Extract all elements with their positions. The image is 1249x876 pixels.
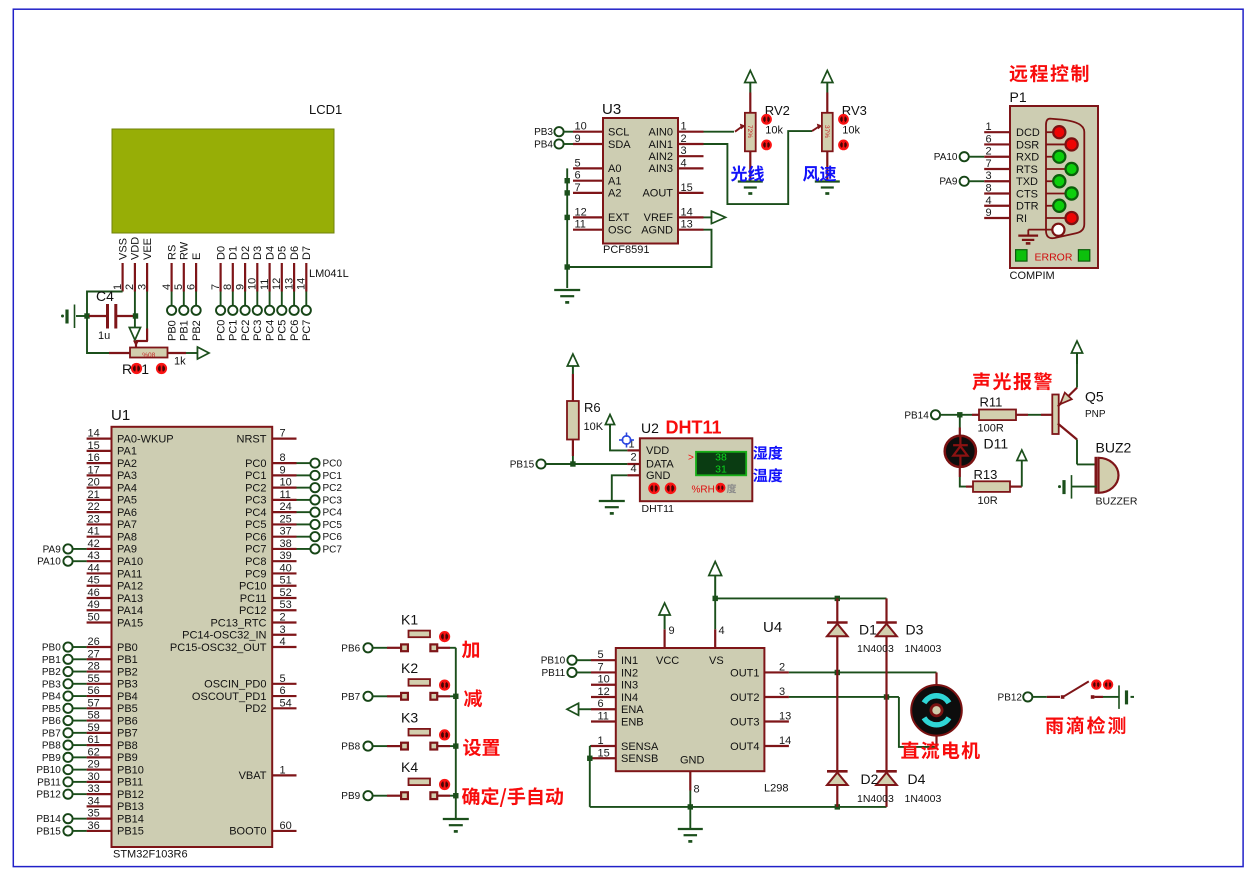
svg-text:PB11: PB11 <box>117 777 143 789</box>
svg-text:12: 12 <box>575 206 587 218</box>
svg-text:PC0: PC0 <box>245 458 266 470</box>
svg-text:72%: 72% <box>746 125 753 138</box>
svg-text:BUZ2: BUZ2 <box>1096 440 1132 456</box>
svg-text:PA10: PA10 <box>934 152 958 163</box>
svg-text:PB1: PB1 <box>42 655 61 666</box>
svg-text:PC5: PC5 <box>323 520 343 531</box>
svg-text:D7: D7 <box>301 246 313 260</box>
svg-text:LCD1: LCD1 <box>309 102 342 117</box>
svg-text:U4: U4 <box>763 619 782 636</box>
svg-text:D0: D0 <box>215 246 227 260</box>
svg-text:K4: K4 <box>401 759 418 775</box>
svg-text:%RH: %RH <box>692 484 715 495</box>
svg-text:PB3: PB3 <box>42 679 61 690</box>
svg-text:PB14: PB14 <box>117 813 144 825</box>
svg-text:DTR: DTR <box>1016 201 1039 213</box>
svg-text:24: 24 <box>280 501 292 513</box>
svg-text:PA2: PA2 <box>117 458 137 470</box>
svg-text:1: 1 <box>280 764 286 776</box>
svg-text:1N4003: 1N4003 <box>857 643 894 655</box>
svg-text:61: 61 <box>88 734 100 746</box>
svg-text:VS: VS <box>709 655 724 667</box>
svg-text:PB2: PB2 <box>191 320 203 341</box>
svg-text:100R: 100R <box>978 423 1004 435</box>
svg-text:PB12: PB12 <box>117 789 144 801</box>
svg-text:2: 2 <box>681 133 687 145</box>
svg-text:PA3: PA3 <box>117 470 137 482</box>
svg-text:D1: D1 <box>859 622 877 638</box>
svg-text:8: 8 <box>222 284 234 290</box>
svg-text:PC4: PC4 <box>323 508 343 519</box>
svg-text:PB9: PB9 <box>42 753 61 764</box>
svg-text:PB8: PB8 <box>42 741 61 752</box>
svg-text:ENB: ENB <box>621 716 644 728</box>
svg-text:PB9: PB9 <box>117 752 138 764</box>
svg-text:PC1: PC1 <box>323 471 343 482</box>
svg-text:IN1: IN1 <box>621 655 638 667</box>
svg-text:PB11: PB11 <box>541 668 565 679</box>
svg-text:PB7: PB7 <box>42 728 61 739</box>
svg-text:10k: 10k <box>842 125 860 137</box>
svg-text:OSCOUT_PD1: OSCOUT_PD1 <box>192 691 267 703</box>
svg-text:PC1: PC1 <box>228 320 240 341</box>
svg-text:DSR: DSR <box>1016 139 1039 151</box>
svg-text:10: 10 <box>598 674 610 686</box>
svg-text:25: 25 <box>280 513 292 525</box>
svg-text:DCD: DCD <box>1016 127 1040 139</box>
svg-text:K2: K2 <box>401 660 418 676</box>
svg-text:37%: 37% <box>823 125 830 138</box>
svg-text:2: 2 <box>124 284 136 290</box>
svg-text:13: 13 <box>779 711 791 723</box>
svg-text:21: 21 <box>88 489 100 501</box>
svg-text:PC12: PC12 <box>239 605 267 617</box>
svg-text:SCL: SCL <box>608 127 629 139</box>
svg-text:59: 59 <box>88 722 100 734</box>
svg-text:PC6: PC6 <box>323 532 343 543</box>
svg-text:46: 46 <box>88 587 100 599</box>
svg-text:COMPIM: COMPIM <box>1010 270 1055 282</box>
svg-text:28: 28 <box>88 661 100 673</box>
svg-text:DATA: DATA <box>646 459 674 471</box>
svg-text:4: 4 <box>631 463 637 475</box>
svg-text:11: 11 <box>259 279 271 290</box>
svg-text:9: 9 <box>280 464 286 476</box>
svg-text:6: 6 <box>280 685 286 697</box>
svg-text:1k: 1k <box>174 356 186 368</box>
svg-text:PB4: PB4 <box>117 691 138 703</box>
svg-text:A1: A1 <box>608 176 621 188</box>
svg-text:PB7: PB7 <box>117 728 138 740</box>
svg-text:2: 2 <box>986 146 992 158</box>
svg-text:RI: RI <box>1016 213 1027 225</box>
svg-text:PC14-OSC32_IN: PC14-OSC32_IN <box>182 630 266 642</box>
svg-text:9: 9 <box>575 133 581 145</box>
svg-text:3: 3 <box>779 686 785 698</box>
svg-text:5: 5 <box>173 284 185 290</box>
svg-text:58: 58 <box>88 710 100 722</box>
svg-text:PC15-OSC32_OUT: PC15-OSC32_OUT <box>170 642 267 654</box>
svg-text:52: 52 <box>280 587 292 599</box>
svg-text:55: 55 <box>88 673 100 685</box>
svg-text:3: 3 <box>280 624 286 636</box>
svg-text:42: 42 <box>88 538 100 550</box>
svg-text:11: 11 <box>280 489 291 501</box>
svg-text:IN3: IN3 <box>621 680 638 692</box>
svg-text:PC10: PC10 <box>239 581 267 593</box>
svg-text:VEE: VEE <box>142 238 154 260</box>
svg-text:PB1: PB1 <box>117 654 138 666</box>
svg-text:15: 15 <box>681 182 693 194</box>
svg-text:1: 1 <box>986 121 992 133</box>
svg-text:D1: D1 <box>228 246 240 260</box>
svg-text:40: 40 <box>280 562 292 574</box>
svg-text:50: 50 <box>88 612 100 624</box>
svg-text:6: 6 <box>986 133 992 145</box>
svg-text:7: 7 <box>280 428 286 440</box>
svg-text:PC3: PC3 <box>323 495 343 506</box>
svg-text:11: 11 <box>598 711 609 723</box>
svg-text:10: 10 <box>247 278 259 290</box>
svg-text:D4: D4 <box>908 771 926 787</box>
svg-text:PA1: PA1 <box>117 446 137 458</box>
svg-text:PA4: PA4 <box>117 482 137 494</box>
svg-text:PC6: PC6 <box>245 531 266 543</box>
svg-text:PC0: PC0 <box>215 320 227 341</box>
svg-text:9: 9 <box>669 625 675 637</box>
svg-text:PB11: PB11 <box>37 777 61 788</box>
svg-text:D2: D2 <box>240 246 252 260</box>
svg-text:PB8: PB8 <box>117 740 138 752</box>
svg-text:35: 35 <box>88 808 100 820</box>
svg-text:VREF: VREF <box>644 212 674 224</box>
svg-text:PA9: PA9 <box>43 544 62 555</box>
svg-text:U3: U3 <box>602 101 621 118</box>
svg-text:6: 6 <box>185 284 197 290</box>
svg-text:PA9: PA9 <box>939 177 958 188</box>
svg-text:57: 57 <box>88 697 100 709</box>
svg-text:10R: 10R <box>978 495 998 507</box>
svg-text:53: 53 <box>280 599 292 611</box>
svg-text:15: 15 <box>88 440 100 452</box>
svg-text:AIN1: AIN1 <box>649 139 673 151</box>
svg-text:PC5: PC5 <box>277 320 289 341</box>
svg-text:AIN3: AIN3 <box>649 163 673 175</box>
svg-text:16: 16 <box>88 452 100 464</box>
svg-text:6: 6 <box>575 170 581 182</box>
svg-text:26: 26 <box>88 636 100 648</box>
svg-text:13: 13 <box>681 219 693 231</box>
svg-text:STM32F103R6: STM32F103R6 <box>113 849 188 861</box>
svg-text:49: 49 <box>88 599 100 611</box>
svg-text:PC0: PC0 <box>323 459 343 470</box>
svg-text:1u: 1u <box>98 330 110 342</box>
svg-text:PB10: PB10 <box>117 764 144 776</box>
svg-text:PA6: PA6 <box>117 507 137 519</box>
svg-text:PC8: PC8 <box>245 556 266 568</box>
svg-text:PA0-WKUP: PA0-WKUP <box>117 433 174 445</box>
svg-text:U2: U2 <box>641 420 659 436</box>
svg-text:41: 41 <box>88 526 100 538</box>
svg-text:SENSB: SENSB <box>621 753 658 765</box>
svg-text:PA8: PA8 <box>117 531 137 543</box>
svg-text:36: 36 <box>88 820 100 832</box>
svg-text:PB15: PB15 <box>510 460 535 471</box>
svg-text:SDA: SDA <box>608 139 631 151</box>
svg-text:1N4003: 1N4003 <box>905 793 942 805</box>
svg-text:AGND: AGND <box>641 225 673 237</box>
svg-text:AIN2: AIN2 <box>649 151 673 163</box>
svg-text:%08: %08 <box>142 352 155 359</box>
svg-text:PA9: PA9 <box>117 544 137 556</box>
svg-text:RXD: RXD <box>1016 152 1039 164</box>
svg-text:PC2: PC2 <box>240 320 252 341</box>
svg-text:RS: RS <box>166 245 178 260</box>
svg-text:OSCIN_PD0: OSCIN_PD0 <box>204 679 266 691</box>
svg-text:D5: D5 <box>277 246 289 260</box>
svg-text:PB0: PB0 <box>42 643 61 654</box>
svg-text:PC4: PC4 <box>264 320 276 341</box>
svg-text:14: 14 <box>779 735 791 747</box>
svg-text:5: 5 <box>280 673 286 685</box>
svg-text:1: 1 <box>598 735 604 747</box>
svg-text:VSS: VSS <box>117 238 129 260</box>
svg-text:ENA: ENA <box>621 704 644 716</box>
svg-text:PC7: PC7 <box>245 544 266 556</box>
svg-text:PB6: PB6 <box>42 716 61 727</box>
svg-text:K3: K3 <box>401 710 418 726</box>
svg-text:20: 20 <box>88 477 100 489</box>
svg-text:7: 7 <box>986 158 992 170</box>
svg-text:D11: D11 <box>984 436 1009 452</box>
svg-text:PC3: PC3 <box>245 495 266 507</box>
svg-text:PNP: PNP <box>1085 409 1106 420</box>
svg-text:30: 30 <box>88 771 100 783</box>
svg-text:56: 56 <box>88 685 100 697</box>
svg-text:A0: A0 <box>608 163 621 175</box>
svg-text:8: 8 <box>694 784 700 796</box>
svg-text:5: 5 <box>575 157 581 169</box>
svg-text:PB0: PB0 <box>117 642 138 654</box>
svg-text:OUT2: OUT2 <box>730 692 759 704</box>
svg-text:PB13: PB13 <box>117 801 144 813</box>
svg-text:5: 5 <box>598 649 604 661</box>
svg-text:4: 4 <box>161 284 173 290</box>
svg-text:PA5: PA5 <box>117 495 137 507</box>
svg-text:DHT11: DHT11 <box>666 418 722 438</box>
svg-text:PC3: PC3 <box>252 320 264 341</box>
svg-text:NRST: NRST <box>237 433 267 445</box>
svg-text:39: 39 <box>280 550 292 562</box>
svg-text:BOOT0: BOOT0 <box>229 826 266 838</box>
svg-text:PB0: PB0 <box>166 320 178 341</box>
svg-text:7: 7 <box>575 182 581 194</box>
svg-text:PA10: PA10 <box>37 557 61 568</box>
svg-text:PA7: PA7 <box>117 519 137 531</box>
svg-text:22: 22 <box>88 501 100 513</box>
svg-text:PC6: PC6 <box>289 320 301 341</box>
svg-text:PB5: PB5 <box>42 704 61 715</box>
svg-text:RW: RW <box>179 241 191 260</box>
svg-text:43: 43 <box>88 550 100 562</box>
svg-text:PC7: PC7 <box>301 320 313 341</box>
svg-text:IN4: IN4 <box>621 692 638 704</box>
svg-text:PA13: PA13 <box>117 593 143 605</box>
svg-text:PA15: PA15 <box>117 617 143 629</box>
svg-text:4: 4 <box>280 636 286 648</box>
svg-text:PD2: PD2 <box>245 703 266 715</box>
svg-text:PB15: PB15 <box>36 826 61 837</box>
svg-text:12: 12 <box>271 278 283 290</box>
svg-text:RTS: RTS <box>1016 164 1038 176</box>
svg-text:14: 14 <box>296 278 308 290</box>
svg-text:GND: GND <box>646 470 671 482</box>
svg-text:PC7: PC7 <box>323 544 343 555</box>
svg-text:PB10: PB10 <box>36 765 61 776</box>
svg-text:R6: R6 <box>584 400 601 415</box>
svg-text:PB6: PB6 <box>117 715 138 727</box>
svg-text:U1: U1 <box>111 407 130 424</box>
svg-text:37: 37 <box>280 526 292 538</box>
svg-text:DHT11: DHT11 <box>642 503 675 515</box>
svg-text:R13: R13 <box>974 467 998 482</box>
svg-text:PB14: PB14 <box>36 814 61 825</box>
svg-text:PB6: PB6 <box>341 643 360 654</box>
svg-text:1N4003: 1N4003 <box>905 643 942 655</box>
svg-text:1N4003: 1N4003 <box>857 793 894 805</box>
svg-text:7: 7 <box>210 284 222 290</box>
svg-text:8: 8 <box>986 183 992 195</box>
svg-text:34: 34 <box>88 795 100 807</box>
svg-text:VBAT: VBAT <box>239 770 267 782</box>
svg-text:D2: D2 <box>861 771 879 787</box>
svg-text:7: 7 <box>598 661 604 673</box>
svg-text:2: 2 <box>631 452 637 464</box>
svg-text:VDD: VDD <box>130 237 142 260</box>
svg-text:GND: GND <box>680 755 705 767</box>
svg-text:11: 11 <box>575 219 586 231</box>
svg-text:17: 17 <box>88 464 100 476</box>
svg-text:PA10: PA10 <box>117 556 143 568</box>
svg-text:ERROR: ERROR <box>1035 252 1073 264</box>
svg-text:6: 6 <box>598 698 604 710</box>
svg-text:Q5: Q5 <box>1085 389 1104 405</box>
svg-text:PB3: PB3 <box>534 127 553 138</box>
svg-text:LM041L: LM041L <box>309 268 349 280</box>
svg-text:VCC: VCC <box>656 655 679 667</box>
svg-text:2: 2 <box>280 612 286 624</box>
svg-text:A2: A2 <box>608 188 621 200</box>
svg-text:BUZZER: BUZZER <box>1096 496 1138 508</box>
svg-text:EXT: EXT <box>608 212 630 224</box>
svg-text:PA12: PA12 <box>117 581 143 593</box>
svg-text:PB8: PB8 <box>341 742 360 753</box>
svg-text:PB7: PB7 <box>341 692 360 703</box>
svg-text:4: 4 <box>719 625 725 637</box>
svg-text:14: 14 <box>88 428 100 440</box>
svg-text:PB2: PB2 <box>42 667 61 678</box>
svg-text:PB2: PB2 <box>117 666 138 678</box>
svg-text:4: 4 <box>681 157 687 169</box>
svg-text:D3: D3 <box>906 622 924 638</box>
svg-text:13: 13 <box>283 278 295 290</box>
svg-text:23: 23 <box>88 513 100 525</box>
svg-text:31: 31 <box>715 463 727 475</box>
svg-text:3: 3 <box>681 145 687 157</box>
svg-text:D6: D6 <box>289 246 301 260</box>
svg-text:3: 3 <box>986 170 992 182</box>
svg-text:10k: 10k <box>765 125 783 137</box>
svg-text:44: 44 <box>88 562 100 574</box>
svg-text:P1: P1 <box>1010 89 1027 105</box>
svg-text:OUT1: OUT1 <box>730 667 759 679</box>
svg-text:33: 33 <box>88 783 100 795</box>
svg-text:PC13_RTC: PC13_RTC <box>210 617 266 629</box>
svg-text:VDD: VDD <box>646 445 669 457</box>
svg-text:1: 1 <box>681 121 687 133</box>
svg-text:PC2: PC2 <box>245 482 266 494</box>
svg-text:PB5: PB5 <box>117 703 138 715</box>
svg-text:2: 2 <box>779 661 785 673</box>
svg-text:9: 9 <box>986 207 992 219</box>
svg-text:>: > <box>688 453 694 464</box>
svg-text:PB4: PB4 <box>42 692 61 703</box>
svg-text:R11: R11 <box>980 395 1003 410</box>
svg-text:PC4: PC4 <box>245 507 266 519</box>
svg-text:OUT3: OUT3 <box>730 716 759 728</box>
svg-text:38: 38 <box>715 452 727 464</box>
svg-text:PB3: PB3 <box>117 679 138 691</box>
svg-text:14: 14 <box>681 206 693 218</box>
svg-text:10: 10 <box>575 121 587 133</box>
svg-text:SENSA: SENSA <box>621 741 659 753</box>
svg-text:K1: K1 <box>401 611 418 627</box>
svg-text:29: 29 <box>88 759 100 771</box>
svg-text:TXD: TXD <box>1016 176 1038 188</box>
svg-text:PA11: PA11 <box>117 568 142 580</box>
svg-text:38: 38 <box>280 538 292 550</box>
svg-text:10K: 10K <box>584 421 604 433</box>
svg-text:L298: L298 <box>764 783 788 795</box>
svg-text:E: E <box>191 253 203 260</box>
svg-text:OSC: OSC <box>608 225 632 237</box>
svg-text:PB4: PB4 <box>534 140 553 151</box>
svg-text:51: 51 <box>280 575 292 587</box>
svg-text:PC1: PC1 <box>245 470 266 482</box>
svg-text:PB12: PB12 <box>998 692 1023 703</box>
svg-text:62: 62 <box>88 746 100 758</box>
svg-text:60: 60 <box>280 820 292 832</box>
svg-text:9: 9 <box>234 284 246 290</box>
svg-text:D3: D3 <box>252 246 264 260</box>
svg-text:PB9: PB9 <box>341 791 360 802</box>
svg-text:8: 8 <box>280 452 286 464</box>
svg-text:PC9: PC9 <box>245 568 266 580</box>
svg-text:54: 54 <box>280 697 292 709</box>
svg-text:IN2: IN2 <box>621 667 638 679</box>
svg-text:4: 4 <box>986 195 992 207</box>
svg-text:3: 3 <box>136 284 148 290</box>
svg-text:PB15: PB15 <box>117 826 144 838</box>
svg-text:OUT4: OUT4 <box>730 741 759 753</box>
svg-text:AOUT: AOUT <box>642 188 673 200</box>
svg-text:27: 27 <box>88 648 100 660</box>
svg-text:15: 15 <box>598 747 610 759</box>
svg-text:PC11: PC11 <box>240 593 267 605</box>
svg-text:PB12: PB12 <box>36 790 61 801</box>
svg-text:D4: D4 <box>264 246 276 260</box>
svg-text:PB14: PB14 <box>904 410 929 421</box>
